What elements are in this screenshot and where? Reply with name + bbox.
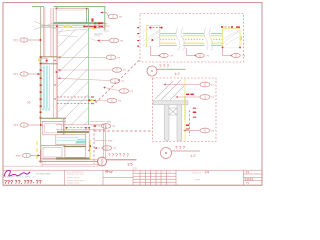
svg-text:???: ??? (104, 30, 109, 34)
box2 gwb band (153, 101, 188, 105)
title block bottom border (3, 184, 262, 186)
svg-text:??: ?? (147, 172, 149, 174)
left keynote tag 2 (13, 123, 43, 128)
main drawing callout bubble (98, 153, 137, 167)
svg-text:?? ???? ????: ?? ???? ???? (36, 173, 51, 176)
dashed transom lines (57, 96, 92, 98)
box1 yellow liner lines (160, 35, 237, 37)
vertical dividers (64, 170, 66, 185)
svg-text:1:5: 1:5 (133, 166, 137, 170)
tag y81 (58, 77, 125, 83)
dashed connector to box2 (94, 130, 153, 132)
svg-text:???: ??? (205, 170, 210, 174)
roller blind cyan (42, 66, 50, 111)
wall right line 2 (55, 7, 57, 118)
svg-text:ARCHITECTS AND CO: ARCHITECTS AND CO (5, 176, 37, 179)
logo (4, 170, 37, 178)
yellow dashes under soffit (64, 26, 68, 27)
svg-text:???: ??? (168, 172, 171, 174)
revision header marks (134, 172, 171, 174)
cyan coil in tray (76, 141, 86, 143)
box1 keynote tag A (151, 46, 174, 58)
box1 dashed border (140, 14, 244, 63)
dashed connector to box1 (96, 59, 141, 103)
green soffit band (54, 22, 98, 24)
box2 red dim marks (186, 94, 196, 130)
box2 tag y84 (163, 82, 214, 87)
wall right inner pair upper (52, 8, 54, 118)
svg-text:???: ??? (175, 145, 187, 150)
svg-text:??: ?? (152, 172, 154, 174)
svg-text:??: ?? (246, 170, 250, 174)
tag y57 (58, 55, 121, 60)
ceiling line left segment (32, 6, 44, 8)
box2 stud left (165, 105, 170, 141)
sill band (40, 117, 66, 119)
wall left outer line (42, 7, 44, 57)
box1 dimension ticks left (137, 27, 139, 47)
svg-text:?????? ????? ????: ?????? ????? ???? (67, 180, 86, 182)
box2 tag y97 (175, 95, 214, 100)
wall middle pair (50, 8, 52, 57)
box2 cross box (169, 108, 177, 115)
hatch tails right of glass (89, 38, 102, 43)
dimension ticks (40, 56, 42, 118)
lower wall column pair (85, 128, 87, 150)
box2 dashed border (153, 78, 217, 142)
olive datum vertical (40, 7, 42, 160)
note y121.7 (90, 120, 111, 124)
bench olive top band (57, 131, 89, 133)
marks on soffit band (94, 22, 97, 24)
brace cross in wall (34, 22, 58, 30)
svg-text:?????? ?????: ?????? ????? (67, 178, 81, 180)
drawer band 2 (65, 147, 86, 158)
svg-text:??: ?? (134, 172, 136, 174)
svg-text:??: ?? (162, 172, 164, 174)
svg-text:???: ??? (13, 73, 18, 77)
ceiling line right segment (54, 6, 106, 8)
bulkhead box (56, 9, 88, 23)
detail callout 1 (147, 64, 186, 77)
tag y148 (94, 146, 116, 151)
bulkhead right green edge (85, 9, 87, 23)
bulkhead corner marks (56, 8, 57, 9)
svg-text:????: ???? (102, 22, 108, 26)
wall right line 3 (57, 7, 59, 118)
red dashes on mullion (54, 60, 55, 61)
cyan lines in tray (57, 137, 78, 139)
tag y70 (58, 68, 127, 73)
floor lines (42, 159, 98, 161)
red lines under soffit (40, 25, 105, 27)
revision table rows (133, 172, 176, 174)
svg-text:?????: ????? (245, 177, 254, 181)
red star mark at soffit (91, 18, 94, 22)
blind housing box (41, 58, 47, 63)
glass inner green line (88, 24, 90, 125)
svg-text:???: ??? (16, 154, 21, 158)
tag y100.5 (93, 98, 121, 103)
svg-text:1:2: 1:2 (190, 153, 196, 158)
svg-text:?????? ?: ?????? ? (192, 173, 202, 175)
lower cabinet box (41, 145, 65, 158)
svg-text:??????? ????: ??????? ???? (67, 183, 81, 185)
left keynote tag 0 (13, 38, 41, 43)
svg-text:???: ??? (159, 64, 171, 69)
box1 break squiggle 1 (177, 29, 184, 49)
box1 keynote tag B (187, 48, 210, 58)
red dot on mullion (56, 71, 58, 73)
tag y16.5 (100, 12, 122, 20)
box1 left jamb (144, 26, 164, 48)
blind housing lines (40, 56, 58, 58)
title block top border (3, 169, 262, 171)
sill cabinet box (43, 122, 64, 135)
box1 right jamb (221, 26, 242, 48)
svg-text:???: ??? (13, 39, 18, 43)
box2 glass hatch corner (155, 80, 184, 100)
dimension column line (39, 57, 41, 119)
svg-text:???????? ??? ????: ???????? ??? ???? (67, 174, 86, 176)
svg-text:??: ?? (141, 172, 143, 174)
tag y40.5 (97, 38, 123, 43)
address cell divider (103, 177, 133, 179)
wall left inner line (44, 7, 46, 57)
olive bottom band (56, 157, 90, 159)
box2 stud right (177, 105, 182, 141)
svg-text:1:2: 1:2 (174, 71, 180, 76)
box1 break squiggle 2 (205, 29, 212, 49)
bench left column pair (62, 118, 64, 145)
svg-text:???: ??? (13, 124, 18, 128)
svg-text:1:5: 1:5 (127, 162, 133, 167)
tag y126 (93, 124, 115, 129)
detail callout 2 (161, 145, 201, 159)
svg-text:??: ?? (157, 172, 159, 174)
red vertical dashed cut line (93, 125, 95, 164)
note y23 colored blocks (94, 22, 108, 28)
box1 wall band dotted core (160, 38, 237, 40)
box1 glass green lines (160, 33, 237, 35)
box1 keynote tag C (223, 48, 246, 58)
box2 yellow line (184, 79, 186, 142)
bench top line (56, 124, 105, 126)
green fascia vertical right (104, 7, 106, 30)
svg-text:????: ???? (195, 179, 201, 181)
box2 tag y130 (183, 128, 214, 133)
page border frame (3, 3, 262, 186)
svg-text:??????: ?????? (108, 153, 130, 158)
box2 red vertical dashed (189, 110, 191, 136)
yellow verticals (89, 140, 91, 160)
svg-text:???: ??? (108, 139, 113, 143)
right column rows (243, 173, 262, 175)
tag y91 (104, 87, 134, 94)
note y140.5 (94, 139, 113, 143)
svg-text:??: ?? (27, 101, 31, 105)
bulkhead top second line (56, 9, 88, 11)
address cell text (67, 172, 86, 185)
bench dashed edge (66, 127, 89, 129)
left keynote tag 3 (16, 153, 41, 158)
svg-text:??? ??. ???- ??: ??? ??. ???- ?? (4, 180, 42, 186)
left keynote tag 1 (13, 72, 41, 77)
cyan tray band (56, 135, 86, 145)
